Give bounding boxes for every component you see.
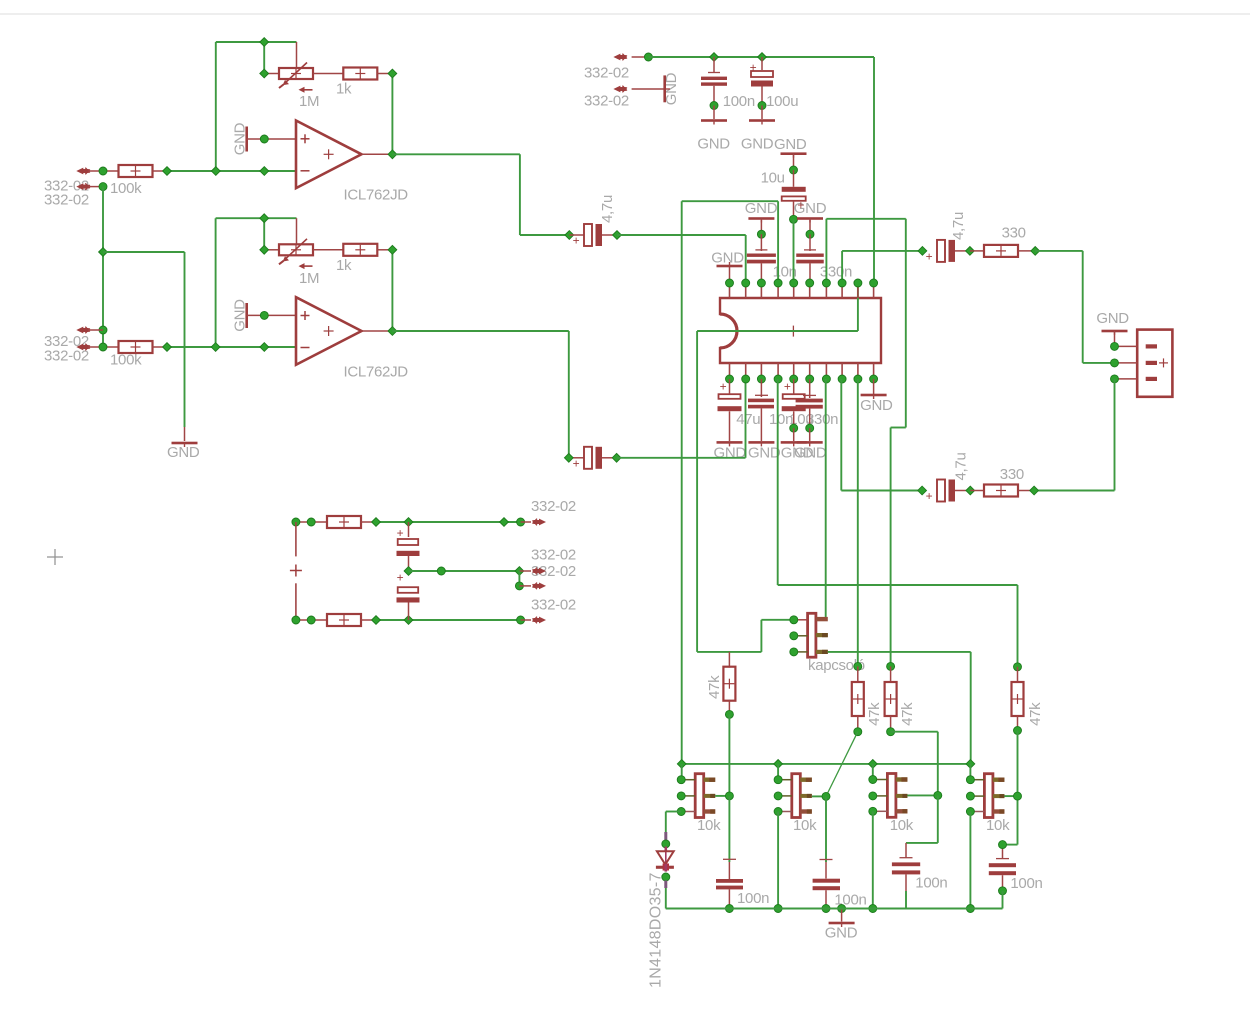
svg-text:GND: GND [794, 445, 827, 462]
svg-text:GND: GND [167, 444, 200, 461]
svg-text:100n: 100n [1010, 875, 1042, 892]
svg-text:4,7u: 4,7u [599, 195, 616, 223]
svg-text:+: + [397, 571, 404, 585]
svg-text:10k: 10k [890, 817, 914, 834]
svg-text:1k: 1k [336, 81, 352, 98]
svg-text:332-02: 332-02 [531, 547, 576, 564]
svg-text:GND: GND [711, 250, 744, 267]
svg-text:47u: 47u [736, 411, 760, 428]
svg-text:+: + [926, 249, 933, 263]
svg-text:47k: 47k [866, 702, 883, 726]
svg-text:330n: 330n [820, 263, 852, 280]
svg-text:+: + [397, 526, 404, 540]
svg-text:100n: 100n [723, 93, 755, 110]
svg-text:10k: 10k [986, 817, 1010, 834]
svg-text:332-02: 332-02 [584, 65, 629, 82]
svg-text:47k: 47k [899, 702, 916, 726]
svg-text:332-02: 332-02 [44, 192, 89, 209]
svg-text:100n: 100n [737, 890, 769, 907]
svg-text:ICL762JD: ICL762JD [344, 187, 409, 204]
svg-text:1M: 1M [299, 93, 319, 110]
svg-text:1N4148DO35-7: 1N4148DO35-7 [648, 872, 665, 988]
svg-text:100n: 100n [915, 875, 947, 892]
svg-text:10k: 10k [793, 817, 817, 834]
svg-text:+: + [573, 234, 580, 248]
svg-text:47k: 47k [706, 675, 723, 699]
svg-text:GND: GND [745, 200, 778, 217]
svg-text:ICL762JD: ICL762JD [344, 364, 409, 381]
svg-text:+: + [784, 380, 791, 394]
svg-text:4,7u: 4,7u [950, 212, 967, 240]
svg-text:GND: GND [860, 397, 893, 414]
svg-text:332-02: 332-02 [531, 498, 576, 515]
svg-text:+: + [797, 198, 804, 212]
svg-text:GND: GND [714, 445, 747, 462]
svg-text:332-02: 332-02 [44, 348, 89, 365]
svg-text:100u: 100u [766, 93, 798, 110]
svg-text:10u: 10u [761, 169, 785, 186]
svg-text:GND: GND [1096, 310, 1129, 327]
svg-text:GND: GND [825, 925, 858, 942]
svg-text:+: + [926, 489, 933, 503]
svg-text:GND: GND [748, 445, 781, 462]
svg-text:47k: 47k [1027, 702, 1044, 726]
svg-text:330: 330 [1000, 466, 1024, 483]
svg-text:GND: GND [774, 136, 807, 153]
svg-text:1k: 1k [336, 257, 352, 274]
svg-text:10k: 10k [697, 817, 721, 834]
svg-text:1M: 1M [299, 270, 319, 287]
svg-text:100k: 100k [110, 180, 142, 197]
svg-text:GND: GND [697, 136, 730, 153]
svg-text:332-02: 332-02 [531, 597, 576, 614]
svg-text:+: + [720, 380, 727, 394]
svg-text:330: 330 [1002, 224, 1026, 241]
svg-text:332-02: 332-02 [584, 93, 629, 110]
svg-text:GND: GND [741, 136, 774, 153]
svg-text:4,7u: 4,7u [953, 453, 970, 481]
svg-text:+: + [573, 456, 580, 470]
